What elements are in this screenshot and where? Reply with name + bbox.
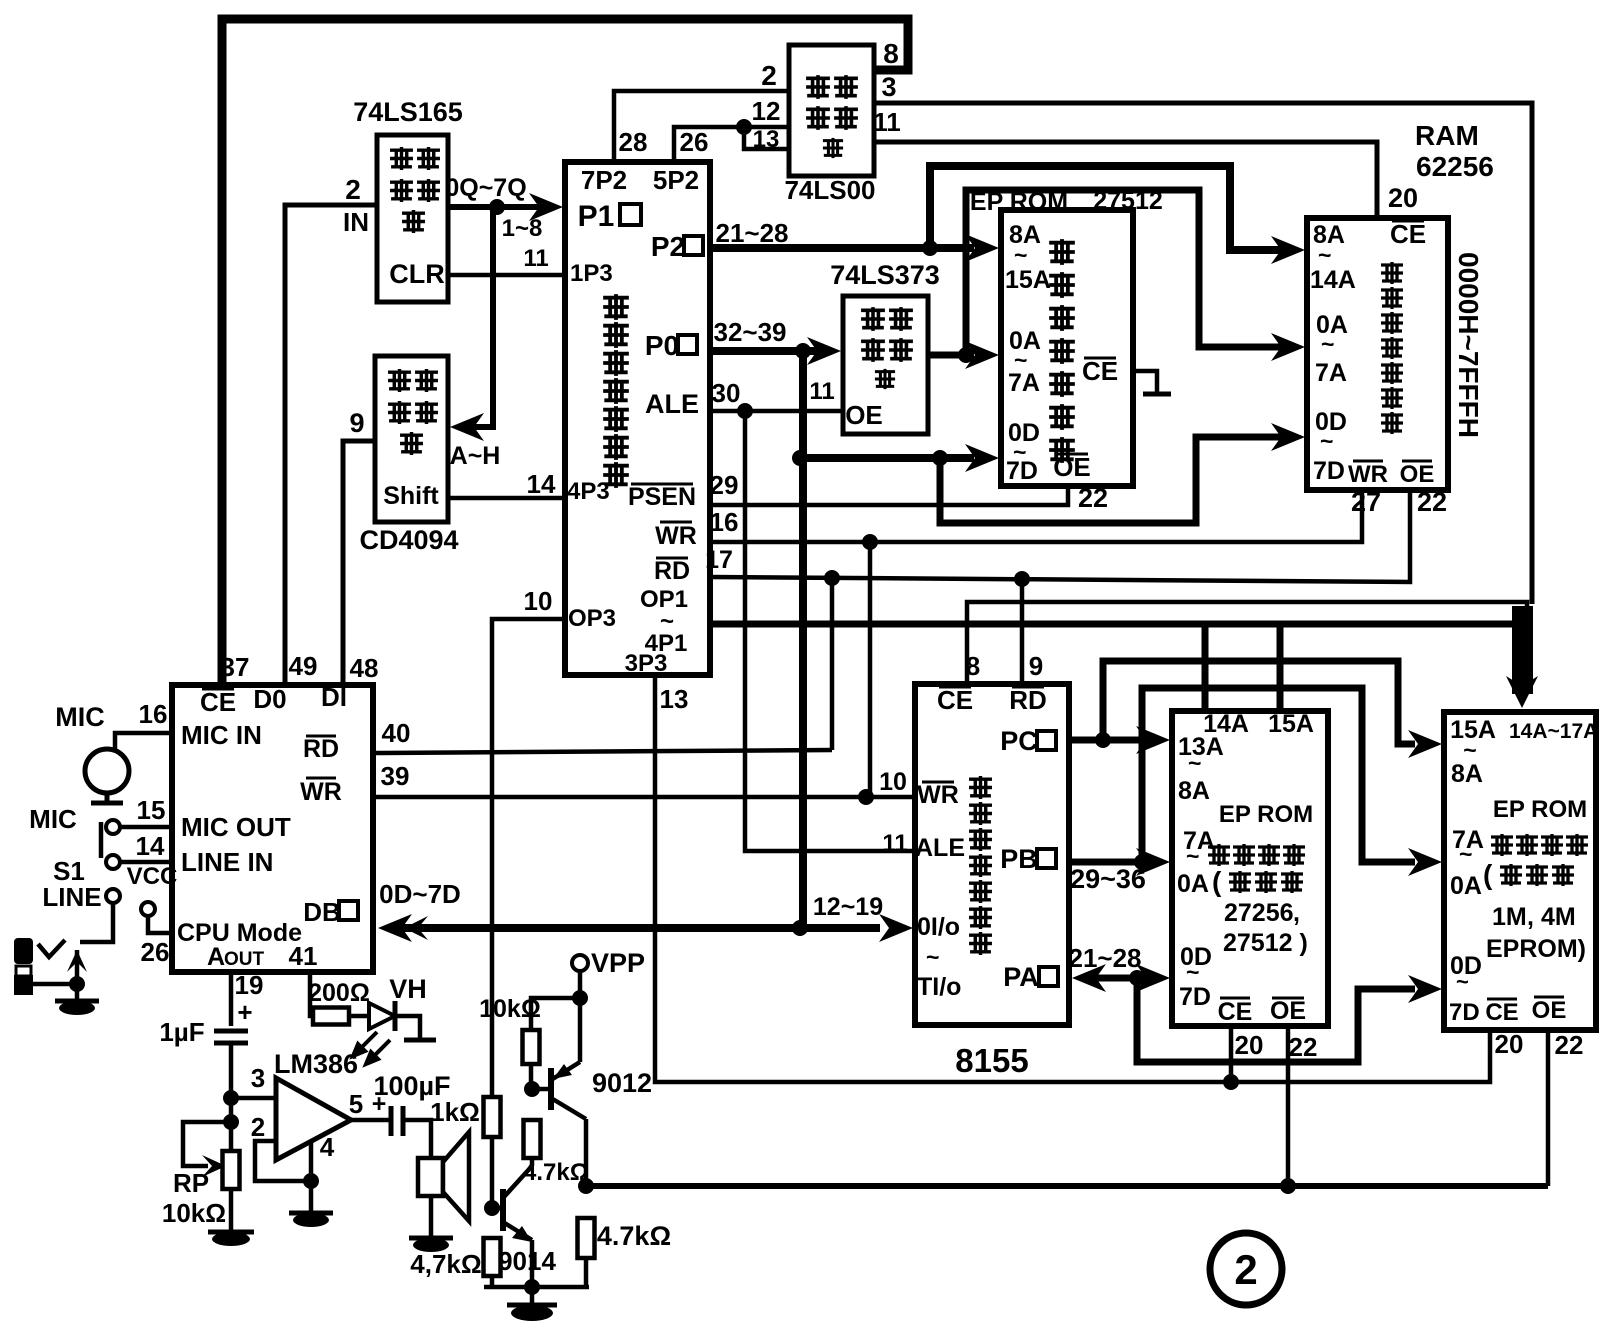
wire decoder pin11 to RAM CE pin20: [874, 142, 1377, 218]
wire 4.7k to ground rail: [584, 1258, 589, 1287]
wire decoder pin3 to EPROM3 top: [874, 103, 1532, 604]
svg-text:RP: RP: [173, 1168, 209, 1198]
IC EPROM burning socket 27256/27512: [1172, 711, 1328, 1026]
svg-text:2: 2: [1234, 1246, 1257, 1293]
wire P2 bus 21~28 to EPROM 27512 8A~15A: [710, 244, 952, 252]
svg-text:DI: DI: [321, 682, 347, 712]
svg-text:OE: OE: [1532, 997, 1567, 1024]
wire jack sleeve to ground node: [22, 984, 77, 993]
wire 9014 emitter to ground rail: [530, 1240, 535, 1287]
svg-text:OE: OE: [1270, 997, 1306, 1025]
wire speaker to ground: [429, 1196, 434, 1236]
resistor 1kOhm: [484, 1097, 501, 1137]
wire 8155 PA to EPROM2 0D~7D (bidirectional): [1092, 975, 1150, 982]
svg-text:WR: WR: [917, 781, 959, 809]
svg-text:39: 39: [381, 761, 410, 791]
svg-text:A~H: A~H: [450, 442, 501, 470]
capacitor 1uF: [214, 1031, 248, 1043]
figure number circled 2: [1210, 1233, 1282, 1305]
wire PC branch to EPROM3 15A~8A: [1103, 661, 1415, 744]
svg-text:21~28: 21~28: [715, 218, 788, 248]
svg-text:TI/o: TI/o: [917, 973, 961, 1001]
svg-text:13: 13: [753, 126, 780, 153]
svg-text:26: 26: [680, 127, 709, 157]
svg-text:11: 11: [809, 378, 834, 405]
svg-text:15: 15: [137, 795, 166, 825]
wire LM386 ground stem: [309, 1181, 314, 1211]
svg-text:EP ROM: EP ROM: [1493, 796, 1587, 823]
svg-text:ALE: ALE: [645, 389, 699, 419]
junction LM386 ground node: [303, 1173, 319, 1189]
terminal VPP: [572, 955, 588, 971]
wire LED to ground bar: [395, 1016, 420, 1038]
svg-text:~: ~: [1320, 428, 1333, 454]
wire decoder pin13 tie: [744, 127, 789, 149]
svg-text:48: 48: [350, 653, 379, 683]
svg-text:D0: D0: [253, 684, 286, 714]
svg-text:8A: 8A: [1178, 777, 1210, 805]
transistor 9012 (PNP): [548, 1068, 554, 1110]
svg-text:0000H~7FFFH: 0000H~7FFFH: [1453, 252, 1484, 438]
junction P0 data branch: [795, 343, 811, 359]
wire VCC to ISD CPU Mode pin26: [148, 916, 172, 933]
svg-text:19: 19: [235, 970, 264, 1000]
svg-text:26: 26: [141, 937, 170, 967]
svg-text:CE: CE: [1218, 998, 1253, 1026]
svg-text:VCC: VCC: [127, 863, 178, 890]
potentiometer RP 10k body: [223, 1151, 240, 1189]
svg-text:29~36: 29~36: [1070, 864, 1146, 894]
resistor 4.7k (9014 base): [484, 1238, 501, 1276]
svg-text:2: 2: [251, 1112, 265, 1142]
wire ISD RD pin40: [373, 750, 832, 753]
wire CD4094 Shift to MCU 4P3 pin14: [448, 496, 565, 501]
wire RD branch down to ISD RD pin40: [830, 578, 835, 750]
svg-text:9: 9: [349, 408, 364, 438]
wire P1 bus down to CD4094 A~H: [470, 207, 493, 427]
junction EPROM2 OE on OE line: [1280, 1178, 1296, 1194]
svg-text:21~28: 21~28: [1068, 943, 1141, 973]
svg-text:49: 49: [289, 651, 318, 681]
svg-text:RD: RD: [303, 735, 339, 763]
wire OP1 bus to EPROM2 pin 15A: [1277, 624, 1284, 711]
wire MCU pin26 to decoder pin12: [674, 127, 789, 162]
wire PA branch to EPROM3 0D~7D: [1137, 978, 1415, 1062]
svg-text:16: 16: [710, 507, 739, 537]
svg-text:0A: 0A: [1450, 872, 1482, 900]
junction 0D~7D branch: [932, 450, 948, 466]
svg-text:~: ~: [1456, 969, 1469, 994]
wire 74LS373 out to EPROM 27512 0A~7A: [928, 352, 962, 359]
svg-text:30: 30: [712, 378, 741, 408]
svg-text:VH: VH: [389, 974, 427, 1004]
svg-text:1µF: 1µF: [159, 1017, 204, 1047]
junction 9012 collector node (OE line): [578, 1178, 594, 1194]
svg-text:15A: 15A: [1268, 710, 1314, 738]
wire switch to ISD LINE IN pin14: [120, 860, 172, 865]
svg-text:+: +: [237, 997, 252, 1027]
svg-text:27512 ): 27512 ): [1223, 929, 1308, 957]
svg-text:2: 2: [761, 60, 777, 91]
junction DB bus / P0 column: [792, 920, 808, 936]
svg-text:CPU Mode: CPU Mode: [177, 919, 302, 947]
svg-text:7D: 7D: [1179, 983, 1211, 1011]
wire RP bottom to ground: [229, 1189, 234, 1230]
jack tip contact with arrow: [75, 950, 80, 984]
svg-text:12~19: 12~19: [813, 893, 883, 921]
wire 0A~7A branch to RAM 0A~7A: [966, 190, 1268, 355]
junction LM386 input node: [223, 1090, 239, 1106]
wire high address branch to RAM 8A~14A: [930, 166, 1268, 250]
svg-text:~: ~: [1459, 841, 1472, 867]
text output-converter (CD4094): [388, 369, 411, 392]
wire LM386 pin5 to 100uF: [351, 1118, 391, 1123]
wire ISD Aout pin19 down to 1uF: [229, 972, 234, 1026]
svg-text:32~39: 32~39: [713, 317, 786, 347]
resistor 200ohm: [313, 1008, 349, 1025]
svg-text:~: ~: [926, 944, 939, 970]
wire 9012 emitter to VPP node: [578, 998, 583, 1062]
wire 4.7k to ground rail: [490, 1276, 495, 1287]
svg-text:PA: PA: [1003, 962, 1039, 992]
text address-decoder: [806, 75, 830, 99]
text address-latch: [861, 307, 885, 331]
svg-text:1P3: 1P3: [570, 260, 613, 287]
svg-text:8: 8: [966, 651, 980, 681]
wire 10k to 9012 base node: [529, 1064, 534, 1085]
svg-text:PC: PC: [1000, 726, 1038, 756]
wire EPROM3 OE pin22 down to OE line: [1546, 1032, 1551, 1186]
IC 74LS373 address latch: [843, 296, 928, 434]
junction RD branch to ISD: [824, 570, 840, 586]
svg-text:9014: 9014: [498, 1246, 556, 1276]
junction jack ground node: [69, 976, 85, 992]
svg-text:A: A: [207, 943, 225, 971]
wire 27512 CE tie-low: [1133, 371, 1157, 392]
jack hook contact: [38, 940, 65, 957]
wire VPP down: [578, 971, 583, 998]
wire MCU PSEN pin29 to EPROM 27512 OE pin22: [710, 488, 1068, 505]
wire MCU pin13 to EPROM CE pins: [655, 675, 1490, 1082]
wire to LM386 pin3: [231, 1096, 276, 1101]
text MCU column (danpianji fangzhen chazuo): [603, 294, 629, 320]
svg-text:8: 8: [883, 38, 899, 69]
svg-text:62256: 62256: [1416, 151, 1494, 182]
svg-text:74LS165: 74LS165: [353, 97, 463, 127]
wire PB branch to EPROM3 7A~0A: [1142, 688, 1415, 862]
wire 9014 base: [492, 1206, 503, 1211]
junction ALE branch: [737, 403, 753, 419]
svg-text:P0: P0: [645, 330, 679, 361]
svg-text:IN: IN: [343, 207, 369, 237]
svg-text:WR: WR: [1348, 461, 1388, 488]
svg-text:CE: CE: [1485, 999, 1518, 1026]
svg-text:27256: 27256: [1224, 899, 1294, 927]
svg-text:RAM: RAM: [1415, 120, 1479, 151]
svg-text:10: 10: [524, 586, 553, 616]
svg-text:10kΩ: 10kΩ: [479, 995, 541, 1023]
text voice-data-memory column: [1381, 262, 1403, 284]
svg-text:0A: 0A: [1177, 870, 1209, 898]
svg-text:15A: 15A: [1005, 266, 1051, 294]
phone jack plug symbol: [14, 938, 33, 964]
svg-text:7A: 7A: [1008, 369, 1040, 397]
svg-text:200Ω: 200Ω: [308, 979, 370, 1007]
wire 74LS165 IN to ISD D0 pin49: [285, 205, 377, 685]
junction PC branch: [1095, 732, 1111, 748]
svg-text:~: ~: [1188, 750, 1201, 776]
wire ISD WR pin39 to 8155 WR pin10: [373, 795, 915, 800]
switch S1 contact 14: [106, 855, 120, 869]
resistor 4.7k (9012 base to 9014 collector): [524, 1120, 541, 1158]
svg-text:22: 22: [1289, 1032, 1318, 1062]
svg-text:~: ~: [1321, 331, 1334, 357]
wire P0 bus 32~39 to 74LS373: [710, 347, 805, 355]
svg-text:ALE: ALE: [915, 834, 965, 862]
svg-text:1kΩ: 1kΩ: [430, 1097, 480, 1127]
text burning-socket (EPROM2): [1208, 844, 1230, 866]
svg-text:7D: 7D: [1313, 457, 1345, 485]
capacitor 100uF: [391, 1106, 403, 1136]
wire RP wiper loop: [183, 1122, 231, 1166]
svg-text:7P2: 7P2: [581, 165, 627, 195]
wire 74LS165 outputs 0Q~7Q to MCU P1: [448, 204, 542, 210]
svg-text:0I/o: 0I/o: [917, 913, 960, 941]
svg-text:4: 4: [320, 1132, 335, 1162]
wire 1uF to LM386 pin3 node: [229, 1043, 234, 1098]
svg-text:22: 22: [1555, 1030, 1584, 1060]
junction ground rail: [524, 1279, 540, 1295]
text burning-socket (EPROM3): [1491, 834, 1513, 856]
svg-text:14A~17A: 14A~17A: [1509, 720, 1598, 743]
svg-text:VPP: VPP: [591, 948, 645, 978]
junction WR branch to 8155: [862, 534, 878, 550]
svg-text:LM386: LM386: [274, 1049, 358, 1079]
junction decoder pin12/13 tie: [736, 119, 752, 135]
text programmable-peripheral-interface column: [969, 776, 992, 799]
svg-text:4,7kΩ: 4,7kΩ: [410, 1249, 481, 1279]
svg-text:LINE IN: LINE IN: [181, 847, 273, 877]
junction 9014 base node: [484, 1200, 500, 1216]
wire 74LS165 CLR to MCU 1P3 pin11: [448, 273, 565, 278]
svg-text:MIC OUT: MIC OUT: [181, 812, 291, 842]
wire 8155 PB to EPROM2 7A~0A: [1069, 859, 1148, 866]
svg-text:CE: CE: [1082, 356, 1118, 386]
svg-text:WR: WR: [300, 778, 342, 806]
wire MCU RD pin17 to RAM OE pin22: [710, 492, 1410, 582]
svg-text:4.7kΩ: 4.7kΩ: [597, 1221, 671, 1251]
IC 74LS00 address decoder: [789, 45, 874, 176]
wire EPROM2 CE pin20 dup: [1229, 1028, 1234, 1082]
svg-text:27512: 27512: [1093, 187, 1163, 215]
svg-text:EPROM): EPROM): [1486, 935, 1586, 963]
svg-text:RD: RD: [1009, 685, 1047, 715]
svg-text:3P3: 3P3: [625, 650, 668, 677]
svg-text:11: 11: [873, 107, 901, 137]
svg-text:7A: 7A: [1315, 359, 1347, 387]
svg-text:Shift: Shift: [383, 482, 439, 510]
wire OE control line (9012 collector to EPROM OE pins): [586, 1183, 1548, 1189]
wire MCU WR pin16 to RAM WR pin27: [710, 492, 1362, 542]
svg-text:LINE: LINE: [42, 882, 101, 912]
svg-text:CE: CE: [937, 685, 973, 715]
IC EPROM 27512 monitor program memory: [1001, 210, 1133, 486]
svg-text:9: 9: [1029, 651, 1043, 681]
svg-text:PSEN: PSEN: [628, 483, 696, 511]
wire ground stem: [530, 1287, 535, 1303]
svg-text:3: 3: [251, 1063, 265, 1093]
IC 8155 programmable peripheral interface: [915, 684, 1069, 1025]
svg-text:17: 17: [705, 546, 733, 574]
wire 0D~7D branch to RAM 0D~7D: [940, 437, 1268, 523]
wire RD branch down to 8155 RD: [1020, 579, 1025, 684]
svg-text:(: (: [1483, 859, 1493, 890]
wire WR branch down to 8155 WR: [868, 542, 873, 797]
text input-converter (74LS165): [390, 147, 413, 170]
svg-text:1M: 1M: [1492, 903, 1527, 931]
IC 74LS165 input shift register: [377, 135, 448, 302]
svg-text:11: 11: [523, 245, 548, 272]
switch S1 contact LINE: [106, 889, 120, 903]
junction 0A~7A branch: [958, 347, 974, 363]
arrow into EPROM3 top: [1506, 676, 1538, 708]
svg-text:2: 2: [345, 174, 361, 205]
wire 1k to 9014 base node: [490, 1137, 495, 1208]
junction VPP node: [572, 990, 588, 1006]
svg-text:5: 5: [349, 1089, 363, 1119]
svg-text:7D: 7D: [1449, 999, 1480, 1026]
IC CD4094 output shift register: [375, 356, 448, 522]
wire LM386 pin2 to ground node: [255, 1141, 308, 1181]
svg-text:RD: RD: [654, 557, 690, 585]
wire data bus 0D~7D to EPROM 27512 0D~7D: [800, 454, 958, 462]
switch S1 contact 15: [106, 820, 120, 834]
svg-text:CLR: CLR: [389, 259, 445, 289]
VCC terminal circle: [141, 902, 155, 916]
wire base node to 9012 base: [532, 1087, 551, 1092]
wire node down to RP: [229, 1098, 234, 1151]
svg-text:8A: 8A: [1451, 760, 1483, 788]
svg-text:OUT: OUT: [224, 949, 265, 970]
svg-text:MIC: MIC: [29, 804, 77, 834]
svg-text:MIC: MIC: [55, 702, 105, 732]
svg-text:28: 28: [619, 127, 648, 157]
wire P0 data bus down to 8155: [799, 351, 807, 928]
svg-text:37: 37: [221, 652, 250, 682]
wire VPP node to 10k resistor: [531, 998, 580, 1030]
svg-text:41: 41: [289, 941, 318, 971]
svg-text:0Q~7Q: 0Q~7Q: [445, 174, 526, 202]
wire LM386 pin4 down: [309, 1143, 314, 1181]
junction 9012 base node: [524, 1081, 540, 1097]
svg-text:20: 20: [1235, 1030, 1264, 1060]
ground (transistor stage): [507, 1303, 557, 1308]
svg-text:~: ~: [1186, 843, 1199, 869]
svg-text:CE: CE: [200, 687, 236, 717]
wire ISD pin41 to 200ohm resistor: [310, 972, 313, 1016]
resistor 10kOhm: [523, 1030, 540, 1064]
LED emission arrows: [353, 1032, 390, 1064]
op-amp LM386: [276, 1078, 351, 1160]
wire ALE down to 8155 ALE pin11: [745, 411, 915, 851]
IC RAM 62256 voice data memory: [1307, 218, 1448, 490]
resistor 4.7k (9012 collector load): [578, 1218, 595, 1258]
LED VH: [369, 1003, 395, 1029]
svg-text:OE: OE: [1400, 461, 1435, 488]
junction EPROM2 CE: [1223, 1074, 1239, 1090]
junction RP top node: [223, 1114, 239, 1130]
svg-text:9012: 9012: [592, 1068, 652, 1098]
wire 100uF to speaker: [403, 1120, 431, 1158]
svg-text:,: ,: [1527, 903, 1534, 931]
svg-text:3: 3: [881, 72, 896, 102]
svg-text:~: ~: [1014, 242, 1027, 268]
ground bar (LED): [404, 1038, 436, 1043]
IC EPROM burning socket 1M/4M: [1444, 712, 1596, 1030]
svg-text:12: 12: [752, 96, 781, 126]
junction 0Q~7Q branch: [489, 199, 505, 215]
svg-text:OE: OE: [845, 400, 883, 430]
svg-text:CE: CE: [1390, 219, 1426, 249]
svg-text:P1: P1: [578, 200, 615, 233]
wire MCU ALE pin30 to 74LS373 OE pin11: [710, 409, 843, 414]
ground (LM386): [289, 1211, 333, 1216]
wire MCU OP3 pin10 down to 1k resistor: [492, 619, 565, 1097]
svg-text:1~8: 1~8: [502, 215, 543, 242]
svg-text:,: ,: [1293, 899, 1300, 927]
svg-text:(: (: [1212, 866, 1222, 897]
svg-text:74LS373: 74LS373: [830, 260, 940, 290]
svg-text:11: 11: [882, 830, 907, 857]
IC ISD voice chip: [172, 685, 373, 972]
svg-text:29: 29: [710, 470, 739, 500]
wire ground rail: [484, 1285, 589, 1290]
speaker: [418, 1158, 443, 1196]
svg-text:0D~7D: 0D~7D: [379, 879, 461, 909]
ground (RP): [208, 1230, 254, 1235]
junction PA branch: [1129, 970, 1145, 986]
svg-text:4M: 4M: [1541, 903, 1576, 931]
junction data bus tap on P0 column: [792, 450, 808, 466]
svg-text:13: 13: [660, 684, 689, 714]
svg-text:CD4094: CD4094: [359, 525, 458, 555]
svg-text:PB: PB: [1000, 844, 1038, 874]
wire decoder pin8 to ISD CE pin37 (top rail): [222, 19, 908, 685]
svg-text:EP ROM: EP ROM: [970, 188, 1068, 216]
IC MCU emulation socket (danpianji fangzhen chazuo): [565, 162, 710, 675]
transistor 9014 (NPN): [500, 1189, 506, 1231]
svg-text:~: ~: [1186, 959, 1199, 985]
svg-text:10: 10: [879, 768, 907, 796]
wire merged vertical into EPROM3 top: [1512, 606, 1533, 694]
svg-text:14: 14: [136, 831, 165, 861]
junction RD branch to 8155 RD pin9: [1014, 571, 1030, 587]
svg-text:20: 20: [1388, 183, 1418, 213]
svg-text:40: 40: [382, 718, 411, 748]
svg-text:14: 14: [527, 469, 556, 499]
wire LINE contact to phone jack: [80, 903, 113, 942]
wire MIC to ISD MIC IN pin16: [115, 733, 172, 749]
microphone symbol: [85, 749, 129, 793]
junction WR at 8155: [858, 789, 874, 805]
svg-text:7D: 7D: [1006, 457, 1038, 485]
wire MCU OP1~4P1 bus to EPROM high address pins: [710, 624, 1516, 694]
svg-text:10kΩ: 10kΩ: [162, 1198, 226, 1228]
wire jack node to ground: [75, 984, 80, 999]
svg-text:DB: DB: [303, 897, 341, 927]
svg-text:8155: 8155: [955, 1042, 1028, 1079]
wire EPROM2 OE pin22 down to OE line: [1286, 1028, 1291, 1186]
